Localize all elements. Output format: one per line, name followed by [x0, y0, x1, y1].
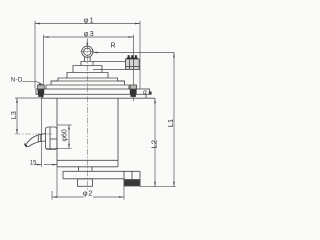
svg-text:φ2: φ2	[83, 189, 93, 198]
svg-text:L3: L3	[9, 111, 18, 119]
svg-text:R: R	[111, 43, 116, 50]
svg-text:15: 15	[30, 160, 37, 166]
svg-text:φ1: φ1	[84, 16, 95, 25]
svg-text:N-D: N-D	[11, 76, 23, 83]
svg-text:α: α	[143, 89, 147, 96]
svg-text:L1: L1	[166, 119, 175, 127]
svg-text:φ3: φ3	[84, 29, 95, 38]
svg-text:φ60: φ60	[61, 129, 68, 141]
svg-text:L2: L2	[150, 140, 159, 148]
